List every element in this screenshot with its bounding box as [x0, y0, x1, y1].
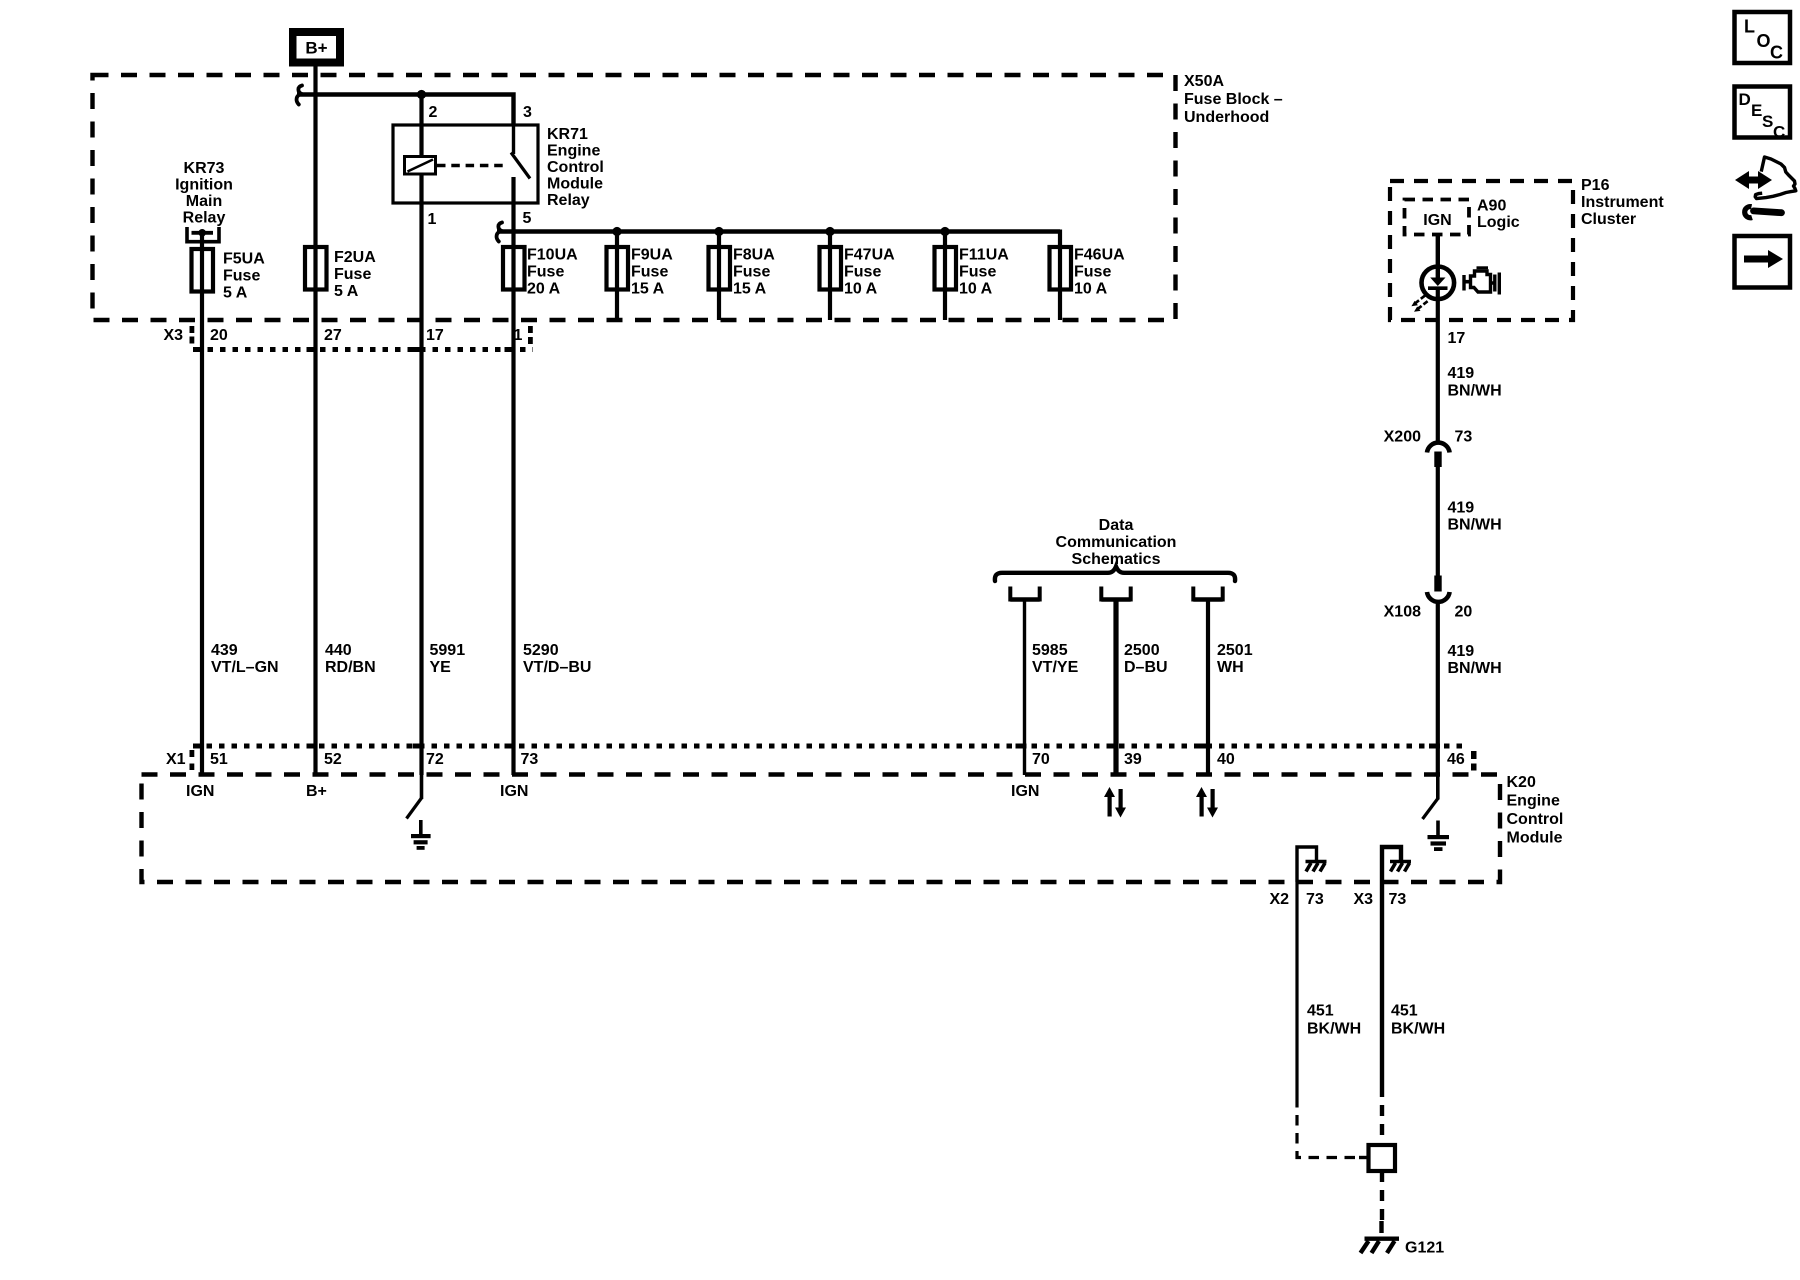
junction node dot pin2 [417, 90, 426, 99]
P16 instrument cluster dashed box [1390, 181, 1573, 320]
icon schematic navigation (double arrow with outline shape) [1735, 157, 1796, 199]
svg-text:E: E [1751, 101, 1762, 120]
label F10UA Fuse 20 A [527, 247, 578, 298]
connector X200 inline (female arc + male pin) [1427, 443, 1450, 467]
wire IGN to lamp [1436, 235, 1440, 277]
fuse F2UA [305, 247, 327, 290]
wire 451 BK/WH left dashed to splice [1297, 1097, 1360, 1158]
svg-text:Communication: Communication [1056, 534, 1177, 551]
label P16 Instrument Cluster [1581, 177, 1664, 228]
svg-text:2: 2 [429, 104, 438, 121]
svg-text:F47UA: F47UA [844, 247, 895, 264]
svg-text:Fuse: Fuse [631, 264, 668, 281]
svg-text:VT/L–GN: VT/L–GN [211, 659, 279, 676]
serial data arrows pin40 [1196, 787, 1218, 818]
hook feed left end [297, 86, 302, 105]
wire 451 BK/WH right solid [1380, 882, 1384, 1086]
node dot F11UA [940, 227, 949, 236]
svg-text:X1: X1 [166, 751, 186, 768]
svg-text:KR71: KR71 [547, 126, 588, 143]
svg-text:Data: Data [1099, 517, 1134, 534]
svg-text:73: 73 [1389, 891, 1407, 908]
wire B+ feed vertical (440 RD/BN column) [313, 67, 317, 776]
svg-text:451: 451 [1307, 1003, 1334, 1020]
svg-text:D: D [1739, 90, 1751, 109]
svg-text:419: 419 [1448, 643, 1475, 660]
indicator lamp (LED) circle [1422, 267, 1455, 300]
svg-text:F2UA: F2UA [334, 249, 376, 266]
label wire 419 BN/WH (lower) [1448, 643, 1502, 677]
hook bus left end [497, 223, 502, 242]
svg-text:Instrument: Instrument [1581, 194, 1664, 211]
fuse F11UA [935, 247, 957, 290]
splice junction box [1369, 1145, 1396, 1171]
wire 419 below X108 [1436, 603, 1440, 775]
brace data communication [995, 567, 1235, 582]
svg-text:X108: X108 [1384, 604, 1421, 621]
svg-text:IGN: IGN [500, 783, 528, 800]
svg-text:5991: 5991 [430, 642, 466, 659]
svg-text:D–BU: D–BU [1124, 659, 1168, 676]
label wire 5991 YE [430, 642, 466, 676]
svg-text:2500: 2500 [1124, 642, 1160, 659]
svg-text:Fuse: Fuse [844, 264, 881, 281]
label K20 Engine Control Module [1507, 774, 1564, 847]
svg-text:1: 1 [514, 327, 523, 344]
svg-text:51: 51 [210, 751, 228, 768]
label wire 2501 WH [1217, 642, 1253, 676]
svg-text:27: 27 [324, 327, 342, 344]
svg-text:Relay: Relay [547, 192, 590, 209]
LED cathode bar [1428, 286, 1448, 290]
B+ power symbol [289, 28, 344, 67]
pin X2-73 case ground arm [1297, 847, 1327, 882]
svg-text:5985: 5985 [1032, 642, 1068, 659]
wire horizontal feed to relay [297, 95, 514, 126]
fuse F9UA [607, 247, 629, 290]
svg-text:BN/WH: BN/WH [1448, 383, 1502, 400]
connector X1 colon left [190, 750, 195, 770]
svg-text:VT/YE: VT/YE [1032, 659, 1079, 676]
wire F47UA column [828, 232, 832, 321]
svg-text:Logic: Logic [1477, 214, 1520, 231]
svg-text:X3: X3 [164, 327, 184, 344]
label wire 2500 D-BU [1124, 642, 1168, 676]
relay KR71 contact blade pin3-5 [511, 125, 530, 179]
svg-text:Ignition: Ignition [175, 177, 233, 194]
svg-text:52: 52 [324, 751, 342, 768]
terminal 2500 [1101, 587, 1130, 600]
label wire 5290 VT/D-BU [523, 642, 591, 676]
svg-text:73: 73 [1455, 429, 1473, 446]
icon wrench [1745, 207, 1782, 218]
icon forward arrow box [1735, 236, 1791, 288]
svg-text:70: 70 [1032, 751, 1050, 768]
svg-text:Fuse: Fuse [733, 264, 770, 281]
svg-text:440: 440 [325, 642, 352, 659]
svg-text:Engine: Engine [547, 143, 600, 160]
svg-text:F8UA: F8UA [733, 247, 775, 264]
wire F9UA column [615, 232, 619, 321]
wire splice to G121 dashed [1380, 1171, 1384, 1221]
connector X1 colon right [1471, 751, 1477, 771]
svg-text:1: 1 [428, 211, 437, 228]
LED triangle [1430, 278, 1445, 287]
svg-text:B+: B+ [305, 39, 327, 58]
ground internal pin72 [411, 820, 431, 850]
svg-text:451: 451 [1391, 1003, 1418, 1020]
node dot F9UA [612, 227, 621, 236]
fuse F8UA [709, 247, 731, 290]
label wire 451 BK/WH right [1391, 1003, 1445, 1038]
label Data Communication Schematics [1056, 517, 1177, 568]
svg-text:F11UA: F11UA [959, 247, 1009, 264]
svg-text:39: 39 [1124, 751, 1142, 768]
wire 439 VT/L-GN column [200, 234, 204, 775]
svg-text:15 A: 15 A [733, 281, 767, 298]
label X50A Fuse Block - Underhood [1184, 73, 1283, 126]
icon LOC box [1735, 12, 1791, 63]
node dot F8UA [714, 227, 723, 236]
svg-text:20: 20 [1455, 604, 1473, 621]
svg-text:O: O [1757, 31, 1771, 51]
label F2UA Fuse 5 A [334, 249, 376, 300]
svg-text:S: S [1762, 112, 1773, 131]
svg-text:40: 40 [1217, 751, 1235, 768]
label F5UA Fuse 5 A [223, 251, 265, 302]
svg-text:F9UA: F9UA [631, 247, 673, 264]
wire 5991 YE column (relay coil pins 2-1) [419, 95, 423, 776]
svg-text:X3: X3 [1354, 891, 1374, 908]
svg-text:Fuse: Fuse [959, 264, 996, 281]
svg-text:46: 46 [1447, 751, 1465, 768]
svg-text:Relay: Relay [183, 210, 226, 227]
svg-text:3: 3 [523, 104, 532, 121]
X50A fuse block underhood dashed box [93, 75, 1176, 320]
svg-text:Cluster: Cluster [1581, 211, 1636, 228]
svg-text:5 A: 5 A [223, 285, 248, 302]
svg-text:Module: Module [1507, 830, 1563, 847]
pin 72 internal switch [407, 775, 422, 819]
connector X1 dotted row [194, 744, 1468, 749]
svg-text:L: L [1744, 17, 1755, 37]
svg-text:Fuse Block –: Fuse Block – [1184, 91, 1283, 108]
relay KR71 coil [405, 157, 436, 175]
svg-text:Fuse: Fuse [1074, 264, 1111, 281]
svg-text:73: 73 [1306, 891, 1324, 908]
relay KR71 coil-contact dashed link [437, 164, 508, 168]
wire 451 BK/WH left solid [1295, 882, 1298, 1097]
wire stub into splice [1359, 1156, 1369, 1159]
label F46UA Fuse 10 A [1074, 247, 1125, 298]
fuse F5UA [192, 249, 214, 292]
icon DESC box [1735, 87, 1791, 142]
LED emission arrows [1411, 296, 1427, 312]
svg-text:BK/WH: BK/WH [1391, 1021, 1445, 1038]
svg-text:IGN: IGN [1423, 212, 1451, 229]
svg-text:15 A: 15 A [631, 281, 665, 298]
label A90 Logic [1477, 198, 1520, 232]
svg-text:Fuse: Fuse [527, 264, 564, 281]
wire F11UA column [943, 232, 947, 321]
svg-text:439: 439 [211, 642, 238, 659]
wire fuse bus horizontal [497, 229, 1060, 233]
engine icon [1464, 268, 1499, 295]
svg-text:IGN: IGN [186, 783, 214, 800]
IGN dashed box [1405, 200, 1470, 235]
lamp wire re-entry [1436, 267, 1440, 278]
svg-text:X50A: X50A [1184, 73, 1224, 90]
wire F46UA column [1058, 230, 1062, 321]
svg-text:Fuse: Fuse [223, 268, 260, 285]
relay KR73 contact symbol [187, 227, 219, 242]
relay KR73 ignition main relay label [175, 160, 233, 227]
label F8UA Fuse 15 A [733, 247, 775, 298]
connector X1 pin ticks [193, 744, 1440, 749]
svg-text:BN/WH: BN/WH [1448, 660, 1502, 677]
svg-text:F46UA: F46UA [1074, 247, 1125, 264]
svg-text:10 A: 10 A [1074, 281, 1108, 298]
ground internal pin46 [1428, 821, 1450, 852]
svg-text:G121: G121 [1405, 1240, 1444, 1257]
svg-text:20 A: 20 A [527, 281, 561, 298]
svg-text:A90: A90 [1477, 198, 1506, 215]
svg-text:RD/BN: RD/BN [325, 659, 376, 676]
svg-text:Module: Module [547, 176, 603, 193]
label wire 439 VT/L-GN [211, 642, 279, 676]
svg-text:Underhood: Underhood [1184, 109, 1269, 126]
svg-text:YE: YE [430, 659, 452, 676]
connector X3 pin ticks [193, 347, 516, 352]
svg-text:17: 17 [1448, 330, 1466, 347]
label wire 419 BN/WH (middle) [1448, 500, 1502, 534]
label wire 419 BN/WH (upper) [1448, 365, 1502, 400]
label wire 5985 VT/YE [1032, 642, 1079, 676]
svg-text:BK/WH: BK/WH [1307, 1021, 1361, 1038]
wire 451 BK/WH right dashed [1380, 1086, 1384, 1145]
svg-text:5290: 5290 [523, 642, 559, 659]
svg-text:17: 17 [426, 327, 444, 344]
svg-text:VT/D–BU: VT/D–BU [523, 659, 591, 676]
wire 2501 WH [1206, 600, 1210, 775]
svg-text:P16: P16 [1581, 177, 1610, 194]
svg-text:KR73: KR73 [184, 160, 225, 177]
svg-text:C: C [1770, 43, 1783, 63]
label KR71 Engine Control Module Relay [547, 126, 604, 209]
svg-text:F10UA: F10UA [527, 247, 578, 264]
label F11UA Fuse 10 A [959, 247, 1009, 298]
svg-text:Engine: Engine [1507, 793, 1560, 810]
wire F8UA column [717, 232, 721, 321]
wire pin5 to fuse bus [511, 177, 515, 775]
svg-text:C: C [1773, 123, 1785, 142]
wire 419 below X200 [1436, 467, 1440, 577]
label F9UA Fuse 15 A [631, 247, 673, 298]
svg-text:F5UA: F5UA [223, 251, 265, 268]
svg-text:20: 20 [210, 327, 228, 344]
svg-text:X200: X200 [1384, 429, 1421, 446]
svg-text:73: 73 [521, 751, 539, 768]
node dot F47UA [825, 227, 834, 236]
wire 2500 D-BU [1113, 600, 1118, 775]
svg-text:419: 419 [1448, 365, 1475, 382]
K20 engine control module dashed box [142, 775, 1501, 883]
fuse F10UA [503, 247, 525, 290]
svg-text:10 A: 10 A [844, 281, 878, 298]
svg-text:Fuse: Fuse [334, 266, 371, 283]
svg-text:5: 5 [523, 210, 532, 227]
svg-text:10 A: 10 A [959, 281, 993, 298]
connector X3 colon left [190, 326, 195, 344]
terminal 5985 [1010, 587, 1039, 600]
svg-text:5 A: 5 A [334, 283, 359, 300]
svg-text:K20: K20 [1507, 774, 1536, 791]
serial data arrows pin39 [1104, 787, 1126, 818]
label wire 440 RD/BN [325, 642, 376, 676]
svg-text:BN/WH: BN/WH [1448, 517, 1502, 534]
svg-text:2501: 2501 [1217, 642, 1253, 659]
svg-text:B+: B+ [306, 783, 327, 800]
fuse F47UA [820, 247, 842, 290]
wire stub to G121 [1379, 1221, 1383, 1233]
connector X3 colon right [528, 326, 533, 344]
relay KR71 box [393, 125, 538, 203]
svg-text:419: 419 [1448, 500, 1475, 517]
fuse F46UA [1050, 247, 1072, 290]
svg-text:72: 72 [426, 751, 444, 768]
svg-text:IGN: IGN [1011, 783, 1039, 800]
wire 5985 VT/YE [1023, 600, 1026, 775]
svg-text:Control: Control [1507, 811, 1564, 828]
pin 46 internal switch [1423, 775, 1438, 819]
pin X3-73 case ground arm [1382, 847, 1411, 882]
label F47UA Fuse 10 A [844, 247, 895, 298]
svg-text:X2: X2 [1270, 891, 1290, 908]
connector X3 dotted bracket [195, 347, 533, 352]
ground G121 [1361, 1239, 1400, 1253]
svg-text:Main: Main [186, 193, 222, 210]
wire lamp down to pin17 [1436, 289, 1440, 441]
terminal 2501 [1193, 587, 1222, 600]
connector X108 inline (male pin + female arc) [1427, 576, 1450, 602]
svg-text:Control: Control [547, 159, 604, 176]
label wire 451 BK/WH left [1307, 1003, 1361, 1038]
svg-text:WH: WH [1217, 659, 1244, 676]
